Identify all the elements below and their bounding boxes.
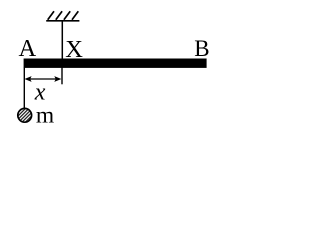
svg-text:A: A <box>19 35 37 62</box>
svg-text:B: B <box>194 36 209 61</box>
svg-text:X: X <box>65 36 83 63</box>
svg-text:m: m <box>36 102 54 127</box>
